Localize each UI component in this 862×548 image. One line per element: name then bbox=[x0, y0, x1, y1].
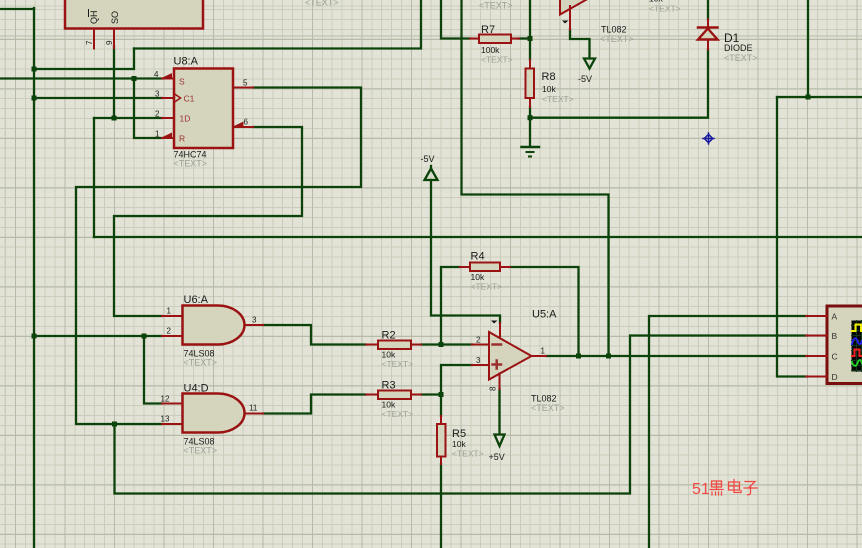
wire R5 bottom to edge bbox=[440, 464, 442, 548]
resistor R3 bbox=[366, 391, 421, 400]
svg-text:13: 13 bbox=[161, 415, 170, 424]
svg-text:2: 2 bbox=[167, 327, 172, 336]
chip pin name SO bbox=[110, 11, 120, 24]
R5 labels bbox=[452, 428, 484, 459]
resistor R2 bbox=[366, 341, 421, 350]
chip pin number 9 bbox=[105, 40, 114, 45]
svg-text:<TEXT>: <TEXT> bbox=[184, 358, 218, 368]
svg-text:<TEXT>: <TEXT> bbox=[542, 94, 574, 104]
svg-text:1: 1 bbox=[155, 130, 160, 139]
wire opamp output row bbox=[546, 355, 807, 357]
svg-text:<TEXT>: <TEXT> bbox=[305, 0, 339, 8]
svg-text:R2: R2 bbox=[382, 330, 396, 342]
wire Q net pin5 bbox=[76, 88, 361, 425]
chip pin 7 stub bbox=[93, 29, 95, 49]
U8 pin R stub bbox=[162, 133, 174, 139]
svg-text:D: D bbox=[832, 372, 838, 382]
chip U? top-left box bbox=[65, 0, 203, 29]
power -5V arrow top bbox=[584, 59, 595, 69]
svg-text:10k: 10k bbox=[452, 439, 466, 449]
watermark 51 black electronics bbox=[692, 480, 757, 499]
U6 pin stubs bbox=[162, 316, 263, 336]
svg-text:2: 2 bbox=[476, 336, 481, 345]
U8 pin S stub bbox=[162, 73, 174, 79]
chip label TEXT fragment bbox=[305, 0, 339, 8]
resistor R7 bbox=[470, 35, 519, 44]
U5 pin 8 rotated bbox=[489, 386, 498, 391]
svg-text:10k: 10k bbox=[471, 272, 485, 282]
resistor R8 vertical bbox=[526, 60, 535, 107]
and-gate U4:D body bbox=[183, 394, 245, 433]
svg-text:R3: R3 bbox=[382, 380, 396, 392]
U8 pin numbers bbox=[154, 70, 249, 139]
blue origin marker bbox=[703, 133, 714, 144]
svg-text:-5V: -5V bbox=[578, 74, 592, 84]
U8 pin 1D stub bbox=[162, 117, 174, 119]
svg-text:<TEXT>: <TEXT> bbox=[649, 4, 681, 14]
wire D1 bottom row y117 bbox=[530, 49, 708, 118]
svg-text:3: 3 bbox=[476, 356, 481, 365]
R4 labels bbox=[471, 251, 503, 292]
svg-text:5: 5 bbox=[243, 79, 248, 88]
svg-text:-5V: -5V bbox=[421, 154, 435, 164]
svg-text:+5V: +5V bbox=[489, 452, 505, 462]
svg-text:C1: C1 bbox=[184, 94, 195, 104]
wire R7 right to junction bbox=[519, 37, 530, 39]
wire 1D row y118 bbox=[94, 117, 162, 119]
U4 pin stubs bbox=[162, 404, 263, 425]
U5 pin numbers bbox=[476, 336, 546, 366]
wire U4 out to R3 bbox=[263, 395, 366, 414]
svg-text:12: 12 bbox=[161, 395, 170, 404]
svg-text:U4:D: U4:D bbox=[184, 383, 209, 395]
wire R4 right feedback bbox=[510, 267, 579, 356]
op-amp upper partial bbox=[560, 0, 603, 30]
wire x114 to bottom bus bbox=[115, 336, 808, 494]
wire R8 bottom node bbox=[529, 107, 531, 146]
svg-text:<TEXT>: <TEXT> bbox=[382, 409, 414, 419]
U8 clock triangle bbox=[174, 94, 181, 103]
svg-text:8: 8 bbox=[489, 386, 498, 391]
wire R3 node bbox=[421, 393, 441, 395]
wire y69 segment bbox=[34, 49, 134, 70]
wire R4 left vertical bbox=[441, 267, 460, 345]
svg-text:U5:A: U5:A bbox=[532, 309, 557, 321]
wire y48 long horizontal bbox=[134, 0, 421, 49]
svg-text:R7: R7 bbox=[481, 24, 495, 36]
U6 TEXT label bbox=[184, 358, 218, 368]
wire U6 out to R2 bbox=[263, 325, 366, 345]
scope screen bbox=[852, 321, 862, 372]
resistor label 10k top fragment bbox=[649, 0, 681, 14]
svg-text:2: 2 bbox=[155, 110, 160, 119]
U8 part number 74HC74 bbox=[174, 150, 207, 160]
oscilloscope component bbox=[827, 306, 862, 384]
wire U6 pin2 row y336 bbox=[34, 335, 162, 337]
diode D1 bbox=[698, 20, 718, 50]
svg-text:<TEXT>: <TEXT> bbox=[184, 446, 218, 456]
wire y237 long horizontal bbox=[94, 236, 862, 238]
svg-text:A: A bbox=[832, 312, 838, 322]
U8 pin C1 stub bbox=[162, 97, 174, 99]
svg-text:<TEXT>: <TEXT> bbox=[382, 359, 414, 369]
ground symbol bbox=[522, 147, 540, 157]
svg-text:<TEXT>: <TEXT> bbox=[600, 34, 634, 44]
R7 labels bbox=[481, 24, 513, 65]
svg-text:<TEXT>: <TEXT> bbox=[471, 282, 503, 292]
wire scope A from x649 bbox=[649, 316, 807, 548]
U8 pin names bbox=[179, 77, 195, 144]
U6 label bbox=[184, 294, 209, 306]
wire x94 down bbox=[93, 118, 95, 237]
svg-text:<TEXT>: <TEXT> bbox=[531, 403, 565, 413]
wire pin9 down x114 bbox=[113, 46, 115, 118]
wire Qbar net x302 bbox=[114, 127, 302, 316]
wire R7 left bbox=[441, 0, 470, 39]
svg-text:7: 7 bbox=[85, 40, 94, 45]
U4 label bbox=[184, 383, 209, 395]
U8 TEXT label bbox=[174, 159, 208, 169]
svg-text:S: S bbox=[179, 77, 185, 87]
chip pin 9 stub bbox=[113, 29, 115, 49]
svg-text:<TEXT>: <TEXT> bbox=[452, 449, 484, 459]
resistor R4 bbox=[460, 263, 510, 272]
U6 pin numbers bbox=[167, 307, 258, 336]
wire x134 down to R bbox=[134, 79, 162, 139]
svg-text:B: B bbox=[832, 331, 838, 341]
U8 pin 5 stub bbox=[233, 87, 253, 89]
wire S row y78 bbox=[0, 77, 162, 79]
wire D1 top bbox=[707, 0, 709, 20]
svg-text:R8: R8 bbox=[542, 71, 556, 83]
power -5V terminal mid bbox=[425, 166, 438, 180]
resistor R5 vertical bbox=[437, 416, 446, 464]
svg-text:SO: SO bbox=[110, 11, 120, 24]
chip pin number 7 bbox=[85, 40, 94, 45]
R8 labels bbox=[542, 71, 574, 104]
svg-text:TL082: TL082 bbox=[531, 394, 557, 404]
wire vertical bus x34 bbox=[33, 8, 35, 548]
wire x530 up bbox=[529, 0, 531, 39]
svg-text:C: C bbox=[832, 352, 838, 362]
svg-text:10k: 10k bbox=[542, 84, 556, 94]
svg-text:11: 11 bbox=[249, 404, 258, 413]
R2 labels bbox=[382, 330, 414, 370]
svg-text:DIODE: DIODE bbox=[724, 43, 753, 53]
svg-text:R4: R4 bbox=[471, 251, 485, 263]
power -5V label top bbox=[578, 74, 592, 84]
U5 label bbox=[532, 309, 557, 321]
wire x777 to scope D bbox=[777, 97, 807, 377]
wire pin3 vertical bbox=[441, 365, 472, 395]
U5 part number bbox=[531, 394, 565, 414]
svg-text:R: R bbox=[179, 134, 185, 144]
wire top-left feed bbox=[0, 8, 34, 10]
svg-text:3: 3 bbox=[155, 90, 160, 99]
svg-text:100k: 100k bbox=[481, 45, 500, 55]
svg-text:4: 4 bbox=[154, 70, 159, 79]
wire x608 net bbox=[462, 0, 609, 356]
wire -5V to opamp vplus bbox=[431, 180, 500, 323]
wire x144 to pin12 bbox=[144, 336, 162, 404]
svg-text:3: 3 bbox=[252, 316, 257, 325]
svg-text:TL082: TL082 bbox=[601, 25, 627, 35]
wire R3 node to R5 bbox=[440, 395, 442, 417]
power -5V label mid bbox=[421, 154, 435, 164]
R3 labels bbox=[382, 380, 414, 420]
svg-text:10k: 10k bbox=[382, 400, 396, 410]
TEXT fragment top x480 bbox=[479, 1, 513, 11]
U4 pin numbers bbox=[161, 395, 258, 424]
svg-text:QH: QH bbox=[89, 11, 99, 25]
flip-flop U8:A body bbox=[174, 69, 233, 149]
power +5V arrow bbox=[495, 435, 505, 447]
upper op-amp labels bbox=[600, 25, 634, 45]
chip pin name QH bbox=[89, 10, 100, 25]
svg-text:51: 51 bbox=[692, 481, 710, 498]
op-amp U5:A bbox=[472, 321, 546, 390]
svg-text:<TEXT>: <TEXT> bbox=[479, 1, 513, 11]
scope pin stubs bbox=[806, 316, 827, 377]
U6 part number bbox=[184, 349, 215, 359]
wire R2 to pin2 node bbox=[421, 343, 472, 345]
D1 labels bbox=[724, 31, 758, 63]
svg-text:U8:A: U8:A bbox=[174, 56, 199, 68]
wire C1 row y98 bbox=[34, 97, 162, 99]
svg-text:U6:A: U6:A bbox=[184, 294, 209, 306]
and-gate U6:A body bbox=[183, 306, 245, 345]
svg-text:<TEXT>: <TEXT> bbox=[724, 53, 758, 63]
wire y97 top right bbox=[777, 96, 862, 98]
svg-text:6: 6 bbox=[244, 118, 249, 127]
U4 part number bbox=[184, 437, 215, 447]
U8 pin 6 stub bbox=[233, 122, 253, 128]
svg-text:1: 1 bbox=[167, 307, 172, 316]
wire x530 to R8 bbox=[529, 39, 531, 61]
U4 TEXT label bbox=[184, 446, 218, 456]
scope pin letters bbox=[832, 312, 838, 383]
U8 label bbox=[174, 56, 199, 68]
svg-text:1: 1 bbox=[541, 347, 546, 356]
svg-text:1D: 1D bbox=[180, 114, 191, 124]
wire opamp vminus to +5V bbox=[498, 389, 500, 434]
svg-text:<TEXT>: <TEXT> bbox=[481, 55, 513, 65]
power +5V label bbox=[489, 452, 505, 462]
svg-text:<TEXT>: <TEXT> bbox=[174, 159, 208, 169]
svg-text:10k: 10k bbox=[382, 350, 396, 360]
svg-text:9: 9 bbox=[105, 40, 114, 45]
wire x808 bbox=[807, 0, 809, 97]
wire upper opamp V- to -5V bbox=[570, 29, 590, 58]
